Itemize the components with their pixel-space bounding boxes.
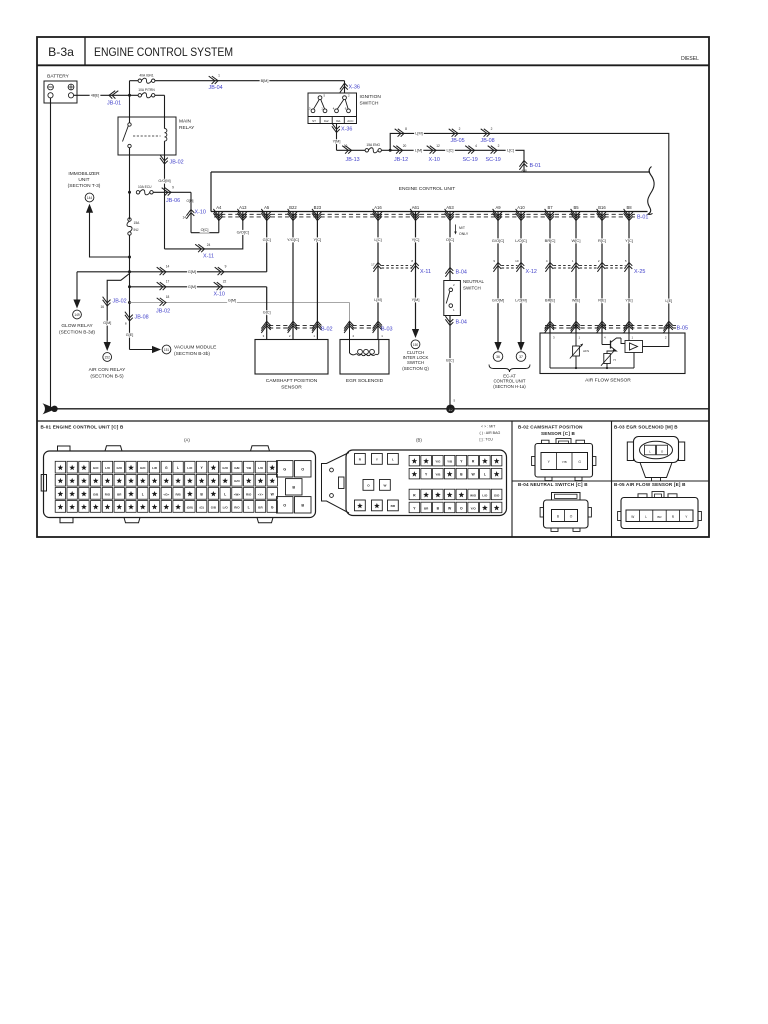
svg-text:A9: A9 <box>495 205 501 210</box>
fuse 10A P/TRN <box>138 88 164 117</box>
svg-text:R/B: R/B <box>175 492 181 496</box>
svg-text:Y[E]: Y[E] <box>625 299 632 303</box>
svg-text:JB-13: JB-13 <box>346 157 360 163</box>
svg-text:40A IGN1: 40A IGN1 <box>139 73 153 77</box>
connector JB-12 <box>393 144 423 163</box>
air flow internal wiring <box>550 333 669 369</box>
svg-text:10A P/TRN: 10A P/TRN <box>138 88 155 92</box>
svg-text:X-11: X-11 <box>203 254 214 260</box>
wire B22 to camshaft sensor pin 2 <box>286 220 301 340</box>
ignition switch <box>307 93 381 124</box>
ECU pin labels <box>216 205 632 210</box>
svg-text:L[C]: L[C] <box>507 149 514 153</box>
svg-text:(A): (A) <box>184 438 190 443</box>
svg-text:SENSOR [C] B: SENSOR [C] B <box>541 431 576 436</box>
svg-text:B7: B7 <box>547 205 553 210</box>
svg-text:Y[M]: Y[M] <box>412 298 420 302</box>
connector B-03 face <box>627 437 684 482</box>
connector JB-01 <box>107 91 121 107</box>
svg-text:BR[C]: BR[C] <box>545 238 556 243</box>
svg-text:G[M]: G[M] <box>103 321 111 325</box>
fuse 15A INJ <box>127 192 140 235</box>
svg-text:Y[M]: Y[M] <box>333 140 341 144</box>
svg-text:O: O <box>460 506 463 510</box>
transistor Q1 <box>602 338 625 354</box>
svg-text:A4: A4 <box>216 205 222 210</box>
svg-text:22: 22 <box>223 280 227 284</box>
svg-text:36: 36 <box>496 355 500 359</box>
svg-text:G/O[M]: G/O[M] <box>158 179 170 183</box>
wire A9 to EC-AT <box>491 220 506 352</box>
svg-text:W: W <box>383 484 386 488</box>
svg-text:13: 13 <box>307 106 311 110</box>
connector JB-08 <box>125 312 149 338</box>
svg-text:B8: B8 <box>626 205 632 210</box>
svg-text:L[M]: L[M] <box>374 298 381 302</box>
svg-text:(SECTION T-3): (SECTION T-3) <box>68 183 101 189</box>
connector B-01 pin arrows <box>213 209 633 221</box>
svg-text:ENGINE CONTROL UNIT: ENGINE CONTROL UNIT <box>399 186 456 192</box>
svg-text:IG2: IG2 <box>324 119 329 123</box>
connector B-04 lower <box>445 316 466 325</box>
svg-text:JB-02: JB-02 <box>156 309 170 315</box>
connector X-10 pin 12 <box>427 144 455 163</box>
connector JB-06 <box>162 186 194 204</box>
fuse 10A ECU <box>136 185 191 195</box>
svg-text:EC-AT: EC-AT <box>503 373 516 378</box>
svg-text:B16: B16 <box>598 205 606 210</box>
svg-text:ENGINE CONTROL SYSTEM: ENGINE CONTROL SYSTEM <box>94 45 233 59</box>
svg-text:L: L <box>177 466 179 470</box>
node immobilizer junction <box>128 256 131 259</box>
svg-text:O[C]: O[C] <box>446 237 454 242</box>
wire label B[M] <box>260 79 270 84</box>
svg-text:CONTROL UNIT: CONTROL UNIT <box>493 379 525 384</box>
svg-text:151: 151 <box>164 348 170 352</box>
connector B-01 pin grid <box>55 461 277 512</box>
legend <box>480 425 501 442</box>
svg-text:17: 17 <box>166 280 170 284</box>
svg-text:G/B: G/B <box>211 505 217 509</box>
svg-text:O: O <box>570 515 573 519</box>
svg-text:B-01: B-01 <box>530 163 541 169</box>
air con relay <box>89 342 126 380</box>
svg-text:H: H <box>614 358 616 362</box>
svg-text:X-10: X-10 <box>195 210 206 216</box>
svg-text:R[E]: R[E] <box>598 299 605 303</box>
resistor H <box>601 352 616 366</box>
svg-text:X-36: X-36 <box>341 127 352 133</box>
svg-text:SENSOR: SENSOR <box>281 385 302 391</box>
svg-text:W: W <box>631 515 634 519</box>
svg-text:G[M]: G[M] <box>228 299 236 303</box>
connector B-01 large pins <box>277 461 312 513</box>
svg-text:4: 4 <box>475 144 477 148</box>
svg-text:L[E]: L[E] <box>665 299 672 303</box>
svg-text:< > : M/T: < > : M/T <box>481 425 496 429</box>
svg-text:149: 149 <box>74 313 80 317</box>
svg-text:ST: ST <box>312 119 316 123</box>
connector JB-04 <box>209 74 223 92</box>
svg-text:(B): (B) <box>416 438 422 443</box>
wire A53 to neutral switch <box>445 220 455 281</box>
svg-text:G/O: G/O <box>140 466 146 470</box>
svg-text:JB-02: JB-02 <box>170 160 184 166</box>
svg-text:G/O[C]: G/O[C] <box>237 229 249 234</box>
svg-text:L/O: L/O <box>258 466 264 470</box>
svg-text:W[E]: W[E] <box>572 299 580 303</box>
svg-text:L: L <box>484 472 486 476</box>
connector JB-13 <box>337 144 366 163</box>
svg-text:L: L <box>645 515 647 519</box>
wire B16 to air flow sensor <box>597 220 607 334</box>
svg-text:VACUUM MODULE: VACUUM MODULE <box>174 345 216 351</box>
svg-text:14: 14 <box>166 265 170 269</box>
wire B8 to air flow sensor <box>624 220 634 334</box>
svg-text:B23: B23 <box>314 205 322 210</box>
svg-text:X-10: X-10 <box>429 157 440 163</box>
svg-text:15A ENG: 15A ENG <box>366 143 380 147</box>
wire neutral switch to ground <box>445 316 455 405</box>
svg-text:G[E]: G[E] <box>126 333 134 337</box>
svg-text:SWITCH: SWITCH <box>360 101 379 107</box>
connector X-25 in-line <box>554 266 646 275</box>
svg-text:( ) : AIR BAG: ( ) : AIR BAG <box>480 431 501 435</box>
svg-text:X-25: X-25 <box>634 269 645 275</box>
fuse 15A ENG <box>365 143 390 153</box>
svg-text:B: B <box>292 485 295 489</box>
svg-text:G/O[M]: G/O[M] <box>492 299 504 303</box>
wire B7 to air flow sensor <box>544 220 556 334</box>
svg-text:O: O <box>283 503 286 507</box>
svg-text:B-03 EGR SOLENOID [M] B: B-03 EGR SOLENOID [M] B <box>614 424 678 429</box>
svg-text:R/O: R/O <box>234 505 240 509</box>
EC-AT control unit <box>489 352 530 389</box>
svg-text:A5: A5 <box>264 205 270 210</box>
svg-text:(SECTION H-1a): (SECTION H-1a) <box>493 384 526 389</box>
svg-text:G/O: G/O <box>494 493 500 497</box>
wire JB-05 JB-08 branch to air flow sensor <box>390 127 673 333</box>
wire main vertical <box>129 235 131 349</box>
svg-text:O[M]: O[M] <box>187 199 194 203</box>
svg-text:L/O: L/O <box>482 493 488 497</box>
op-amp <box>625 341 643 353</box>
svg-text:B-01 ENGINE CONTROL UNIT [C] B: B-01 ENGINE CONTROL UNIT [C] B <box>41 425 124 430</box>
svg-text:4B[E]: 4B[E] <box>91 94 99 98</box>
svg-text:G[C]: G[C] <box>263 311 271 315</box>
svg-text:G[M]: G[M] <box>188 270 196 274</box>
connector X-12 in-line <box>502 266 537 275</box>
wire air con relay branch <box>107 274 129 345</box>
svg-text:L/O: L/O <box>223 505 229 509</box>
svg-text:<W>: <W> <box>234 492 241 496</box>
svg-text:G: G <box>165 466 168 470</box>
connector B-04 face <box>540 493 591 532</box>
wire battery positive feed <box>74 94 138 99</box>
wire A16 to EGR solenoid pin 1 <box>371 220 383 340</box>
svg-text:12: 12 <box>436 144 440 148</box>
svg-text:Y[C]: Y[C] <box>625 238 633 243</box>
connector X-36 bottom <box>332 123 353 150</box>
svg-text:L/O[M]: L/O[M] <box>515 299 526 303</box>
svg-text:Y/B: Y/B <box>435 472 441 476</box>
connector JB-02 below relay <box>158 155 184 249</box>
svg-text:150: 150 <box>413 343 419 347</box>
clutch inter lock switch <box>402 329 429 371</box>
wire X-10 to ECU pin A4 <box>191 220 219 233</box>
main relay <box>118 95 195 192</box>
node row3 junction <box>128 301 131 304</box>
connector B-04 upper <box>445 268 466 277</box>
svg-text:20: 20 <box>403 144 407 148</box>
connector B-02 face <box>532 439 596 481</box>
wire B5 to air flow sensor <box>571 220 581 334</box>
svg-text:B-03: B-03 <box>381 326 393 332</box>
svg-text:9: 9 <box>172 186 174 190</box>
svg-text:(G/B): (G/B) <box>187 506 193 509</box>
svg-text:JB-02: JB-02 <box>113 299 127 305</box>
connector B-01 bus <box>214 214 648 220</box>
svg-text:L/O[C]: L/O[C] <box>515 238 527 243</box>
svg-text:UNIT: UNIT <box>78 177 89 183</box>
svg-text:G/O: G/O <box>234 479 240 483</box>
connector B left pins <box>355 454 399 511</box>
node battery junction <box>128 94 131 97</box>
svg-text:JB-01: JB-01 <box>107 100 121 106</box>
svg-text:JB-08: JB-08 <box>481 138 495 144</box>
svg-text:15A: 15A <box>134 221 141 225</box>
immobilizer unit <box>68 171 101 213</box>
svg-text:GLOW RELAY: GLOW RELAY <box>61 323 93 329</box>
engine control unit box <box>211 172 650 212</box>
wire immobilizer to junction <box>90 211 130 257</box>
svg-text:L/R: L/R <box>152 466 158 470</box>
svg-text:JB-06: JB-06 <box>166 198 180 204</box>
svg-text:18: 18 <box>166 295 170 299</box>
svg-text:CAMSHAFT POSITION: CAMSHAFT POSITION <box>266 378 318 384</box>
svg-text:Y/G[C]: Y/G[C] <box>287 237 299 242</box>
svg-text:G/B: G/B <box>93 492 99 496</box>
svg-text:37: 37 <box>519 355 523 359</box>
svg-text:2: 2 <box>498 144 500 148</box>
svg-text:L[C]: L[C] <box>374 237 381 242</box>
svg-text:EGR SOLENOID: EGR SOLENOID <box>346 378 384 384</box>
svg-text:MAIN: MAIN <box>179 119 192 125</box>
svg-text:R[C]: R[C] <box>598 238 606 243</box>
svg-text:9: 9 <box>225 265 227 269</box>
vacuum module <box>130 345 217 358</box>
connector detail panel dividers <box>37 421 709 537</box>
svg-text:JB-04: JB-04 <box>209 85 223 91</box>
connector B right grid bottom <box>409 489 502 513</box>
svg-text:G[M]: G[M] <box>188 285 196 289</box>
fuse 40A IGN1 <box>130 73 155 83</box>
svg-text:X-10: X-10 <box>214 291 225 297</box>
svg-text:AIR FLOW SENSOR: AIR FLOW SENSOR <box>585 378 631 384</box>
svg-text:B: B <box>301 503 304 507</box>
svg-text:L[C]: L[C] <box>447 149 454 153</box>
svg-text:W[C]: W[C] <box>572 238 581 243</box>
svg-text:NEUTRAL: NEUTRAL <box>463 279 485 284</box>
svg-text:R/O: R/O <box>246 492 252 496</box>
svg-text:B-05: B-05 <box>677 326 689 332</box>
glow relay <box>59 272 95 336</box>
svg-text:X-36: X-36 <box>349 85 360 91</box>
svg-text:AIR CON RELAY: AIR CON RELAY <box>89 367 126 373</box>
svg-text:2: 2 <box>459 127 461 131</box>
ECU harness break squiggle <box>648 167 654 215</box>
svg-text:G: G <box>578 460 581 464</box>
node ENG fuse junction <box>389 149 392 152</box>
svg-text:A53: A53 <box>446 205 454 210</box>
svg-text:BATTERY: BATTERY <box>47 74 69 80</box>
wire battery negative to ground <box>50 98 52 409</box>
svg-text:G: G <box>283 467 286 471</box>
svg-text:G/B: G/B <box>234 466 240 470</box>
svg-text:G/O: G/O <box>93 466 99 470</box>
svg-text:SWITCH: SWITCH <box>407 360 424 365</box>
wire row2 G[M] via X-10 pin 22 <box>130 280 267 298</box>
svg-text:ONLY: ONLY <box>459 232 469 236</box>
svg-text:A13: A13 <box>239 205 247 210</box>
svg-text:B-02: B-02 <box>321 326 333 332</box>
svg-text:G/O: G/O <box>222 466 228 470</box>
svg-text:Y/B: Y/B <box>562 460 567 464</box>
ground symbol <box>43 403 58 414</box>
svg-text:144: 144 <box>87 196 93 200</box>
svg-text:L[M]: L[M] <box>415 132 422 136</box>
svg-text:G[C]: G[C] <box>263 237 271 242</box>
svg-text:B[M]: B[M] <box>261 79 269 83</box>
connector X-36 top <box>340 81 360 93</box>
svg-text:X-11: X-11 <box>420 269 431 275</box>
svg-text:Y/B: Y/B <box>447 459 453 463</box>
svg-text:[ ] : TCU: [ ] : TCU <box>480 438 494 442</box>
svg-text:IG1: IG1 <box>336 119 341 123</box>
svg-text:B-04 NEUTRAL SWITCH [C] B: B-04 NEUTRAL SWITCH [C] B <box>518 482 588 487</box>
wire row3 G[M] via JB-02 pin 18 <box>130 295 350 321</box>
svg-text:L: L <box>248 505 250 509</box>
svg-text:B-04: B-04 <box>456 320 467 326</box>
svg-text:ACC: ACC <box>347 119 354 123</box>
svg-text:(SECTION B-3d): (SECTION B-3d) <box>59 330 95 336</box>
svg-text:IMMOBILIZER: IMMOBILIZER <box>68 171 100 177</box>
svg-text:B[C]: B[C] <box>446 358 453 362</box>
svg-text:8: 8 <box>405 127 407 131</box>
wire A61 to clutch switch <box>410 220 420 332</box>
svg-text:G: G <box>271 505 274 509</box>
header divider <box>37 64 709 66</box>
svg-text:RELAY: RELAY <box>179 125 195 131</box>
svg-text:B-04: B-04 <box>456 270 467 276</box>
wire junction riser <box>129 81 131 96</box>
ground bus <box>46 408 708 410</box>
wire A10 to EC-AT <box>514 220 529 352</box>
svg-text:BR[E]: BR[E] <box>545 299 555 303</box>
connector B-05 face <box>618 492 702 529</box>
node row1 junction <box>128 270 131 273</box>
svg-text:JB-08: JB-08 <box>135 315 149 321</box>
svg-text:L/O: L/O <box>187 466 193 470</box>
svg-text:B5: B5 <box>573 205 579 210</box>
svg-text:R/O: R/O <box>105 492 111 496</box>
svg-text:A16: A16 <box>374 205 382 210</box>
svg-text:L: L <box>392 458 394 462</box>
wire A13 to main relay coil <box>165 220 251 260</box>
svg-text:Y/B: Y/B <box>246 466 252 470</box>
svg-text:IGNITION: IGNITION <box>360 94 382 100</box>
connector X-10 pin 14 <box>182 192 205 232</box>
connector B-05 bus <box>545 321 689 333</box>
wire B23 to camshaft sensor pin 1 <box>312 220 322 340</box>
svg-text:AFS: AFS <box>583 349 589 353</box>
svg-text:<O>: <O> <box>163 492 169 496</box>
svg-text:A10: A10 <box>517 205 525 210</box>
svg-text:2: 2 <box>491 127 493 131</box>
wire row1 G[M] <box>77 265 267 276</box>
svg-text:SWITCH: SWITCH <box>463 285 481 290</box>
EGR solenoid <box>340 321 389 384</box>
svg-text:INJ: INJ <box>134 228 139 232</box>
svg-text:Y[C]: Y[C] <box>314 237 322 242</box>
svg-text:<Y>: <Y> <box>258 492 264 496</box>
connector JB-02 pin 16 <box>100 297 126 326</box>
page frame <box>37 37 709 537</box>
node ECU fuse junction <box>128 191 131 194</box>
svg-text:L: L <box>224 492 226 496</box>
svg-text:(SECTION B-5): (SECTION B-5) <box>90 374 124 380</box>
svg-text:B-02 CAMSHAFT POSITION: B-02 CAMSHAFT POSITION <box>518 424 583 429</box>
svg-text:10A ECU: 10A ECU <box>138 185 152 189</box>
svg-text:Y[C]: Y[C] <box>412 237 420 242</box>
svg-text:Y/O: Y/O <box>471 506 477 510</box>
svg-text:W/O: W/O <box>470 493 477 497</box>
svg-text:L[M]: L[M] <box>415 149 422 153</box>
svg-text:O: O <box>301 467 304 471</box>
svg-text:10: 10 <box>515 259 519 263</box>
svg-text:152: 152 <box>105 356 111 360</box>
air flow sensor <box>540 333 685 384</box>
svg-text:B-01: B-01 <box>637 214 648 220</box>
wire ignition feed to ECU A58 <box>390 150 524 172</box>
node row2 junction <box>128 285 131 288</box>
svg-text:M/T: M/T <box>459 226 466 230</box>
wire A5 sensor ground <box>262 220 272 272</box>
connector B-01 face outline <box>41 446 315 523</box>
svg-text:24: 24 <box>207 243 211 247</box>
svg-text:SC-19: SC-19 <box>463 157 478 163</box>
connector SC-19 SC-19 <box>463 144 516 163</box>
note M/T only <box>454 225 469 236</box>
svg-text:A61: A61 <box>412 205 420 210</box>
panel label B-02 camshaft position sensor <box>518 424 583 436</box>
resistor AFS <box>570 344 589 359</box>
svg-text:X-12: X-12 <box>526 269 537 275</box>
connector X-11 in-line <box>382 259 432 275</box>
svg-text:14: 14 <box>182 216 186 220</box>
camshaft position sensor <box>255 334 328 391</box>
svg-text:(G): (G) <box>199 505 203 509</box>
svg-text:DIESEL: DIESEL <box>681 56 699 62</box>
svg-text:BR: BR <box>391 504 396 508</box>
svg-text:(SECTION B-3b): (SECTION B-3b) <box>174 351 210 357</box>
svg-text:B-3a: B-3a <box>48 45 74 59</box>
svg-text:B22: B22 <box>289 205 297 210</box>
svg-text:10: 10 <box>344 144 348 148</box>
svg-text:L: L <box>142 492 144 496</box>
svg-text:B-05 AIR FLOW SENSOR [E] B: B-05 AIR FLOW SENSOR [E] B <box>614 482 686 487</box>
svg-text:JB-12: JB-12 <box>394 157 408 163</box>
